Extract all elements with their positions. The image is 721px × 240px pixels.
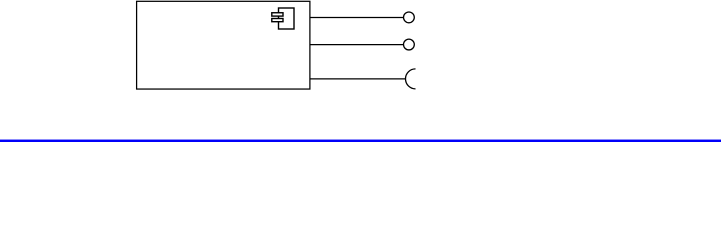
component icon tab 2 — [272, 19, 283, 22]
component icon tab 1 — [272, 13, 283, 16]
wire to provided interface 1 — [310, 16, 404, 18]
provided interface ball 1 — [404, 12, 415, 23]
component box U1 — [137, 1, 310, 89]
wire to provided interface 2 — [310, 44, 404, 46]
component icon body — [279, 8, 295, 29]
blue horizontal rule — [0, 140, 721, 142]
wire to required interface — [310, 78, 406, 80]
provided interface ball 2 — [404, 39, 415, 50]
required interface socket — [406, 69, 416, 89]
